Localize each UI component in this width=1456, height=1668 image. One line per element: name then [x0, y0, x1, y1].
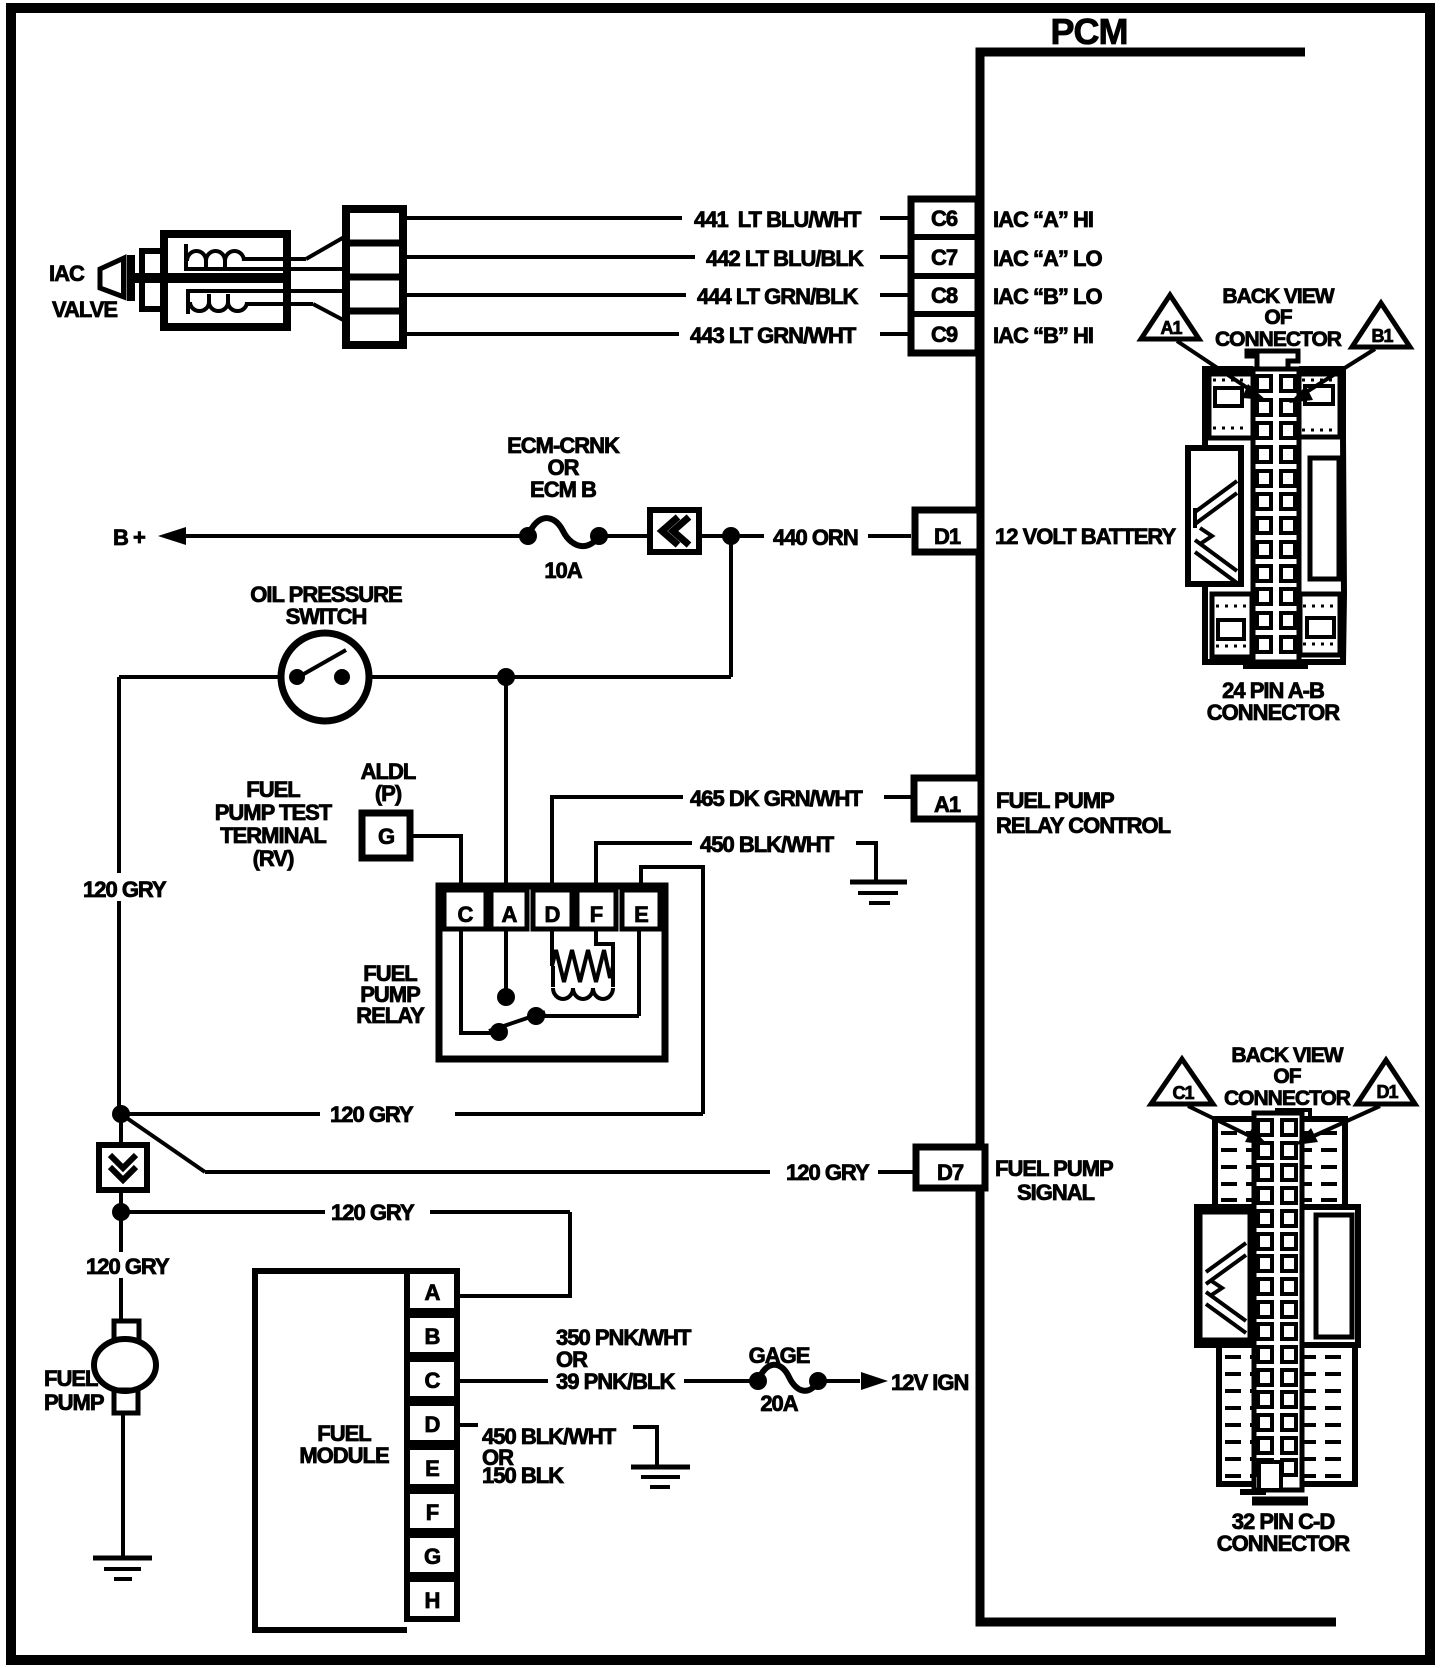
svg-text:TERMINAL: TERMINAL	[220, 823, 326, 848]
svg-text:441 LT BLU/WHT: 441 LT BLU/WHT	[694, 207, 862, 232]
wire 120 GRY vertical through connector	[119, 1114, 123, 1321]
svg-text:ECM B: ECM B	[530, 477, 596, 502]
svg-text:10A: 10A	[544, 558, 582, 583]
wire 442 LT BLU/BLK	[403, 246, 908, 271]
wire 120 GRY (relay E to junction)	[121, 1102, 703, 1127]
svg-text:SWITCH: SWITCH	[286, 604, 367, 629]
svg-text:39 PNK/BLK: 39 PNK/BLK	[556, 1369, 675, 1394]
svg-text:C8: C8	[931, 283, 958, 308]
svg-text:F: F	[426, 1500, 439, 1525]
IAC 4-cavity connector	[306, 209, 403, 345]
svg-text:440 ORN: 440 ORN	[773, 525, 858, 550]
32 pin C-D connector back view	[1197, 1044, 1358, 1556]
PCM pin labels IAC	[993, 207, 1102, 348]
ground (450 BLK/WHT)	[850, 882, 907, 903]
oil pressure switch	[250, 582, 402, 721]
junction node 120 GRY	[112, 1105, 130, 1123]
svg-text:FUEL: FUEL	[44, 1366, 98, 1391]
svg-text:IAC “B” HI: IAC “B” HI	[993, 323, 1093, 348]
svg-text:F: F	[590, 902, 603, 927]
wire 441 LT BLU/WHT	[403, 207, 908, 232]
svg-text:CONNECTOR: CONNECTOR	[1215, 328, 1342, 351]
pointer triangle B1	[1289, 303, 1410, 403]
svg-text:IAC: IAC	[49, 261, 85, 286]
svg-text:E: E	[634, 902, 648, 927]
wire label 120 GRY (left upper)	[80, 873, 172, 902]
svg-text:444 LT GRN/BLK: 444 LT GRN/BLK	[697, 284, 859, 309]
svg-text:PUMP TEST: PUMP TEST	[215, 800, 333, 825]
svg-text:BACK VIEW: BACK VIEW	[1222, 285, 1334, 308]
wire 450 BLK/WHT	[596, 832, 876, 890]
svg-text:IAC “A” LO: IAC “A” LO	[993, 246, 1102, 271]
svg-text:C: C	[458, 902, 474, 927]
24 pin A-B connector back view	[1188, 285, 1344, 725]
svg-text:OF: OF	[1264, 306, 1292, 329]
svg-text:G: G	[424, 1544, 440, 1569]
svg-text:CONNECTOR: CONNECTOR	[1224, 1087, 1351, 1110]
fuel module	[255, 1271, 457, 1630]
svg-text:C: C	[425, 1368, 441, 1393]
svg-text:D: D	[425, 1412, 440, 1437]
svg-text:OF: OF	[1273, 1065, 1301, 1088]
svg-text:PUMP: PUMP	[44, 1390, 104, 1415]
svg-text:120 GRY: 120 GRY	[331, 1200, 415, 1225]
svg-text:IAC “A” HI: IAC “A” HI	[993, 207, 1093, 232]
svg-text:RELAY CONTROL: RELAY CONTROL	[996, 813, 1171, 838]
inline connector symbol (120 GRY)	[99, 1145, 147, 1190]
fuel pump relay	[356, 886, 665, 1059]
wire 440 ORN	[699, 525, 911, 550]
svg-text:D1: D1	[934, 524, 961, 549]
svg-text:FUEL: FUEL	[246, 777, 300, 802]
wire 120 GRY to fuel module pin A	[121, 1200, 570, 1296]
wire 450 BLK/WHT / 150 BLK	[457, 1424, 657, 1488]
wire 120 GRY left vertical	[117, 677, 121, 1114]
svg-text:150 BLK: 150 BLK	[482, 1463, 564, 1488]
svg-text:120 GRY: 120 GRY	[83, 877, 167, 902]
svg-text:B1: B1	[1371, 326, 1393, 346]
svg-text:12 VOLT BATTERY: 12 VOLT BATTERY	[995, 524, 1176, 549]
terminal A1	[914, 778, 1171, 838]
wire oil switch right lead	[369, 675, 731, 679]
svg-text:H: H	[425, 1588, 440, 1613]
fuel pump motor	[44, 1321, 156, 1415]
svg-text:CONNECTOR: CONNECTOR	[1207, 700, 1340, 725]
wire G to relay pin C	[410, 836, 461, 890]
IAC valve	[49, 234, 346, 327]
svg-text:FUEL PUMP: FUEL PUMP	[996, 788, 1114, 813]
svg-text:G: G	[378, 824, 394, 849]
node B+	[113, 525, 524, 550]
svg-text:C1: C1	[1172, 1083, 1194, 1103]
svg-text:(RV): (RV)	[253, 846, 294, 871]
fuse GAGE 20A	[749, 1343, 827, 1416]
PCM module box	[980, 11, 1336, 1622]
pointer triangle A1	[1141, 295, 1266, 400]
svg-text:12V IGN: 12V IGN	[891, 1370, 968, 1395]
svg-text:(P): (P)	[375, 781, 402, 806]
svg-text:A: A	[425, 1280, 441, 1305]
wire 120 GRY to terminal D7	[121, 1114, 913, 1185]
ALDL terminal G	[361, 759, 416, 858]
wire 443 LT GRN/WHT	[403, 323, 908, 348]
svg-text:D1: D1	[1376, 1082, 1398, 1102]
svg-text:120 GRY: 120 GRY	[786, 1160, 870, 1185]
svg-text:D: D	[545, 902, 560, 927]
node 12V IGN	[826, 1370, 968, 1395]
fuse ECM-CRNK/ECM B 10A	[507, 433, 650, 583]
junction node to fuel module	[112, 1203, 130, 1221]
svg-text:B +: B +	[113, 525, 145, 550]
svg-text:RELAY: RELAY	[356, 1003, 425, 1028]
ground (fuel module)	[631, 1467, 690, 1487]
svg-text:A: A	[502, 902, 518, 927]
pointer triangle C1	[1151, 1059, 1268, 1145]
wire oil switch left lead (120 GRY branch)	[119, 675, 281, 679]
terminal D1	[915, 510, 1176, 552]
wire from 440 ORN junction down to oil pressure switch line	[729, 536, 733, 677]
svg-text:IAC “B” LO: IAC “B” LO	[993, 284, 1102, 309]
svg-text:E: E	[425, 1456, 439, 1481]
svg-text:450 BLK/WHT: 450 BLK/WHT	[700, 832, 835, 857]
svg-text:B: B	[425, 1324, 440, 1349]
wire fuel pump to ground	[121, 1413, 125, 1558]
svg-text:465 DK GRN/WHT: 465 DK GRN/WHT	[690, 786, 863, 811]
svg-text:20A: 20A	[760, 1391, 798, 1416]
svg-text:SIGNAL: SIGNAL	[1017, 1180, 1095, 1205]
wire 350 PNK/WHT / 39 PNK/BLK	[457, 1325, 750, 1394]
wire relay pin A feed	[504, 677, 508, 890]
junction node on 440 ORN	[722, 527, 740, 545]
svg-text:120 GRY: 120 GRY	[330, 1102, 414, 1127]
wire 465 DK GRN/WHT	[552, 786, 911, 890]
terminal block C6-C9	[911, 199, 978, 353]
terminal D7	[916, 1147, 1113, 1205]
inline connector symbol (440 ORN)	[650, 510, 699, 552]
svg-text:C6: C6	[931, 206, 958, 231]
wire relay pin E to fuel pump signal net	[641, 867, 703, 1114]
svg-text:442 LT BLU/BLK: 442 LT BLU/BLK	[706, 246, 864, 271]
svg-text:PCM: PCM	[1051, 11, 1128, 52]
pointer triangle D1	[1295, 1060, 1415, 1145]
junction node to fuel pump relay pin A	[497, 668, 515, 686]
fuel pump test terminal label	[215, 777, 333, 871]
svg-text:443 LT GRN/WHT: 443 LT GRN/WHT	[690, 323, 857, 348]
svg-text:120 GRY: 120 GRY	[86, 1254, 170, 1279]
svg-text:VALVE: VALVE	[52, 297, 117, 322]
svg-text:CONNECTOR: CONNECTOR	[1217, 1531, 1350, 1556]
wire 444 LT GRN/BLK	[403, 284, 908, 309]
svg-text:D7: D7	[937, 1160, 964, 1185]
svg-text:A1: A1	[934, 792, 961, 817]
svg-text:C7: C7	[931, 245, 958, 270]
wire label 120 GRY (left lower)	[83, 1252, 175, 1279]
svg-text:A1: A1	[1160, 318, 1182, 338]
ground (fuel pump)	[93, 1558, 152, 1579]
svg-text:FUEL PUMP: FUEL PUMP	[995, 1156, 1113, 1181]
svg-text:MODULE: MODULE	[299, 1443, 389, 1468]
svg-text:BACK VIEW: BACK VIEW	[1231, 1044, 1343, 1067]
svg-text:C9: C9	[931, 322, 958, 347]
